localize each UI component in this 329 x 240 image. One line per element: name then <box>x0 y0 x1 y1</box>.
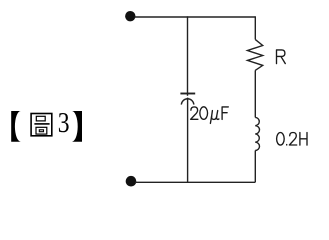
svg-text:3: 3 <box>58 108 70 139</box>
